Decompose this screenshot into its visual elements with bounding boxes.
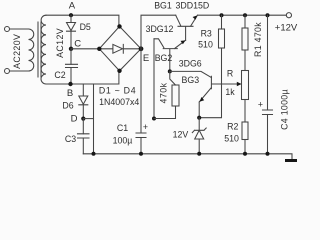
svg-text:C: C [74,39,81,50]
wire [10,70,29,72]
wire top rail A [46,15,119,26]
node rail-gnd1 [92,152,96,156]
wire [267,115,269,154]
bridge inner diode [99,44,141,53]
svg-text:BG3: BG3 [181,75,199,85]
wire [198,118,200,131]
ground symbol [285,159,297,162]
wire [82,119,84,134]
node B [68,82,72,86]
wire +12V rail [198,14,287,16]
node zener top [197,116,201,120]
node zener gnd [197,152,201,156]
wiper arrow R [237,82,242,86]
node BG2 base [168,69,172,73]
svg-text:D1 ~ D4: D1 ~ D4 [99,86,136,96]
wire bottom secondary rail B [46,71,119,84]
svg-text:3DG6: 3DG6 [179,59,202,69]
node C [69,47,73,51]
svg-text:+: + [143,122,148,132]
node bridge right E [139,46,144,51]
wire BG3 collector [170,71,212,77]
BG2 emitter arrow [181,40,186,44]
svg-text:E: E [143,53,149,64]
node C4 top [266,13,270,17]
node R2 gnd [243,152,247,156]
svg-text:C2: C2 [54,70,65,80]
svg-text:R2: R2 [227,122,238,132]
svg-text:+: + [258,100,263,110]
transistor BG1 [176,15,198,40]
wire D to ground dropper [83,118,93,120]
wire C to bridge [71,48,99,50]
svg-text:470k: 470k [159,82,169,103]
svg-text:AC12V: AC12V [55,28,65,58]
transformer T1 secondary [41,15,46,84]
wire [70,49,72,65]
svg-text:3DG12: 3DG12 [146,24,174,34]
resistor 470k [172,85,179,106]
wire [244,100,246,123]
AC input terminal bottom [5,69,10,74]
svg-text:C1: C1 [117,123,128,133]
capacitor C4 [263,110,273,115]
node bridge top [117,24,121,28]
transformer T1 primary [29,29,34,71]
svg-text:A: A [69,1,76,12]
wire [198,139,200,154]
wire R3 down to zener [199,48,221,118]
svg-text:510: 510 [198,40,213,50]
capacitor C3 [78,134,90,138]
node R1 top [243,13,247,17]
wire [82,105,84,119]
svg-text:3DD15D: 3DD15D [176,0,210,10]
transformer core [38,22,41,77]
diode D5 [67,23,76,32]
resistor R1 [242,28,248,50]
svg-text:D5: D5 [80,22,91,32]
node C4 gnd [266,152,270,156]
svg-text:1k: 1k [225,87,235,97]
wire [244,140,246,154]
wire base node to 470k [170,71,176,85]
svg-text:+12V: +12V [275,22,298,33]
transistor BG3 [199,76,241,117]
svg-text:C3: C3 [65,134,76,144]
svg-text:510: 510 [224,134,239,144]
wire [244,50,246,71]
svg-text:C4 1000µ: C4 1000µ [279,89,289,130]
wire BG2 collector down [153,39,155,119]
wire E rail up [141,15,176,49]
resistor R2 [242,122,248,140]
svg-text:100µ: 100µ [113,136,133,146]
capacitor C2 [66,64,78,67]
node bridge bottom [117,69,121,73]
wire [221,15,223,29]
node bridge left [97,47,101,51]
wire ground dropper [93,84,95,154]
wire [70,68,72,85]
bottom ground rail [83,154,292,159]
AC input terminal top [5,27,10,32]
wire [244,15,246,28]
svg-text:D6: D6 [62,101,73,111]
wire [82,138,84,154]
svg-text:D: D [71,114,78,125]
svg-text:R: R [227,69,233,79]
wire [82,84,84,96]
wire [140,138,142,154]
svg-text:12V: 12V [173,129,189,139]
svg-text:B: B [67,88,73,99]
svg-text:BG2: BG2 [155,53,173,63]
wire [10,28,29,30]
svg-text:BG1: BG1 [154,0,172,10]
node R3 top [220,13,224,17]
transistor BG2 [154,39,186,72]
bridge rectifier D1-D4 diamond [99,26,141,70]
wire E down to C1 [140,49,142,133]
wire [267,15,269,110]
diode D6 [79,96,88,105]
resistor R3 [219,29,225,48]
output terminal +12V [286,13,291,18]
node A [69,13,73,17]
node collector jog [152,117,156,121]
node C1 gnd [139,152,143,156]
node D [81,117,85,121]
potentiometer R [242,71,249,100]
svg-text:R3: R3 [201,29,212,39]
svg-text:AC220V: AC220V [12,34,22,69]
wire [70,31,72,49]
BG1 emitter arrow [193,15,198,19]
wire jog to 470k [154,106,176,119]
zener diode DW 12V [192,128,206,139]
svg-text:1N4007x4: 1N4007x4 [99,97,139,107]
wire [70,15,72,22]
svg-text:R1 470k: R1 470k [253,22,263,57]
BG3 emitter arrow [200,97,205,102]
capacitor C1 [136,133,146,138]
